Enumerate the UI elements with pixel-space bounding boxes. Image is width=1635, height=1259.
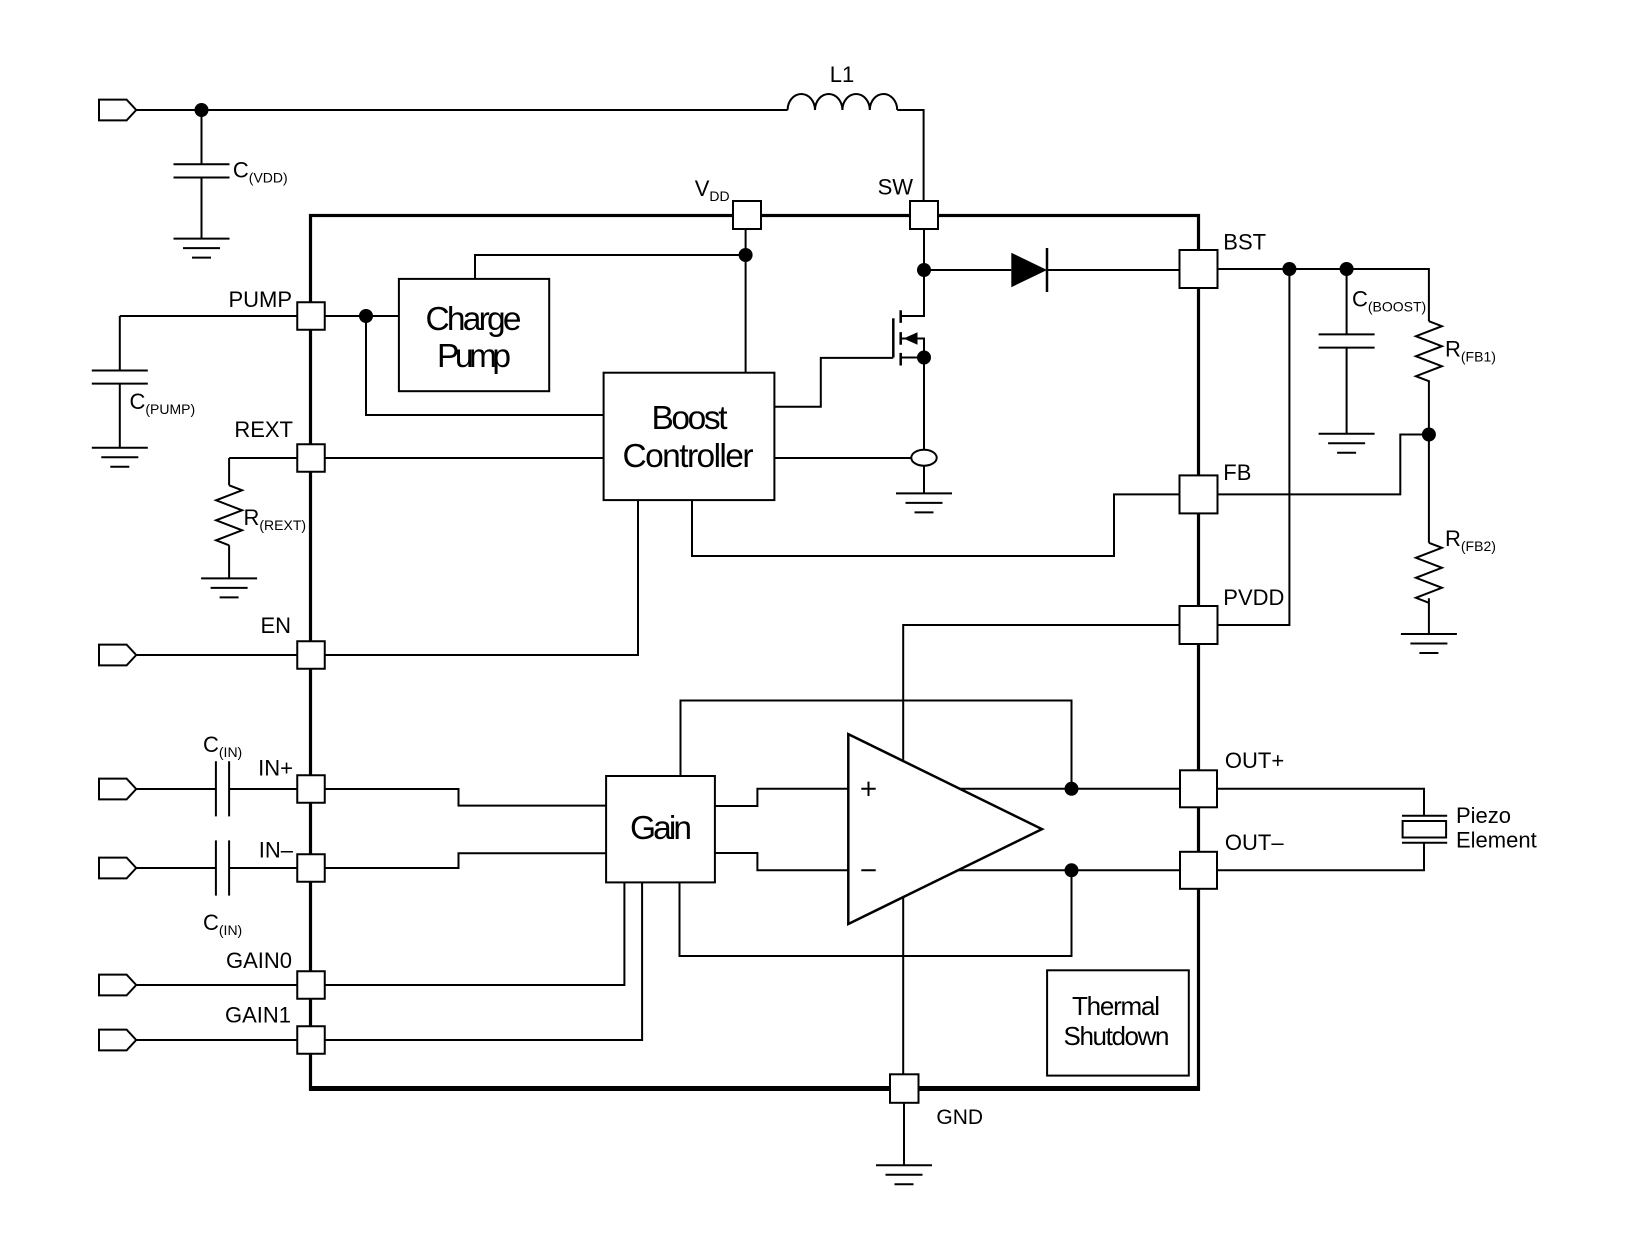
svg-text:PUMP: PUMP [228,287,292,312]
svg-text:REXT: REXT [234,417,293,442]
svg-text:Shutdown: Shutdown [1064,1021,1170,1051]
svg-text:Thermal: Thermal [1072,991,1160,1021]
svg-text:Controller: Controller [623,438,754,475]
svg-text:GAIN0: GAIN0 [226,948,292,973]
svg-text:Element: Element [1456,828,1537,853]
svg-text:GAIN1: GAIN1 [225,1003,291,1028]
svg-text:PVDD: PVDD [1223,585,1284,610]
svg-text:Gain: Gain [630,810,692,847]
svg-text:FB: FB [1223,460,1251,485]
svg-text:SW: SW [878,175,914,200]
svg-text:IN+: IN+ [258,756,293,781]
svg-text:OUT–: OUT– [1225,830,1284,855]
svg-text:GND: GND [936,1106,983,1129]
svg-text:Piezo: Piezo [1456,803,1511,828]
svg-text:EN: EN [260,613,291,638]
svg-text:Boost: Boost [652,400,729,437]
svg-text:Charge: Charge [426,301,522,338]
svg-text:L1: L1 [830,62,854,87]
svg-text:OUT+: OUT+ [1225,748,1284,773]
svg-text:BST: BST [1223,230,1266,255]
svg-text:Pump: Pump [437,338,511,375]
svg-text:IN–: IN– [259,838,294,863]
